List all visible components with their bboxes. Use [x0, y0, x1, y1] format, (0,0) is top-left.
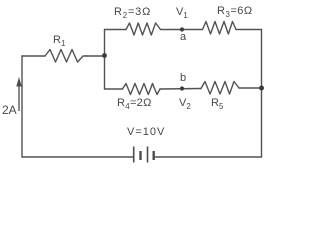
label 2A — [2, 103, 17, 117]
wire battery to bottom right — [154, 156, 261, 158]
wire left vertical — [21, 56, 23, 157]
label R3=6ohm — [217, 5, 253, 19]
label node a — [180, 31, 186, 43]
battery V plates — [134, 147, 154, 163]
wire R1 to junction — [86, 55, 105, 57]
resistor R5 — [201, 82, 239, 95]
resistor R2 — [126, 23, 161, 35]
wire middle vertical branch split — [104, 30, 106, 90]
wire bottom left to battery — [22, 156, 133, 158]
label R1 — [53, 34, 65, 48]
label node b — [180, 72, 186, 84]
wire R5 to right junction — [239, 87, 262, 89]
resistor R3 — [203, 22, 237, 35]
wire top-left to R1 — [22, 55, 45, 57]
wire right vertical — [261, 30, 263, 158]
label V1 — [176, 6, 188, 20]
label R2=3ohm — [114, 6, 151, 20]
wire junction to R4 — [105, 88, 123, 90]
current arrow 2A — [16, 77, 21, 111]
node junction left — [102, 53, 107, 58]
label R5 — [211, 97, 223, 111]
node b dot — [180, 86, 184, 90]
label V=10V — [127, 126, 165, 138]
resistor R4 — [123, 84, 161, 95]
wire R4 to node b — [160, 88, 201, 91]
wire R3 to top-right corner — [236, 29, 262, 31]
label V2 — [179, 97, 191, 111]
label R4=2ohm — [117, 97, 152, 111]
node junction right — [259, 86, 264, 91]
wire R2 to node a — [161, 29, 203, 31]
node a dot — [180, 27, 184, 31]
resistor R1 — [45, 50, 86, 63]
wire junction to R2 — [105, 29, 127, 31]
